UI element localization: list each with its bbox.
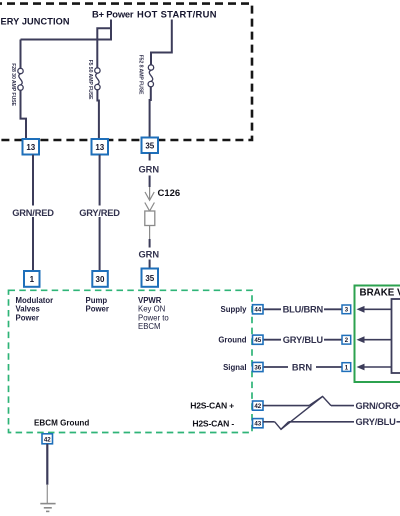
label EBCM Ground	[34, 419, 89, 428]
svg-text:BLU/BRN: BLU/BRN	[283, 305, 324, 315]
wire connector 13 to pin 30	[99, 155, 101, 271]
brake valve pin 2	[342, 335, 351, 344]
wire fuse F52 to connector 35	[150, 87, 151, 138]
pin 45	[253, 335, 264, 344]
svg-text:GRY/BLU: GRY/BLU	[356, 417, 397, 427]
arrow into pin 1	[357, 364, 392, 371]
connector 13 (left)	[23, 139, 40, 155]
svg-text:Signal: Signal	[223, 363, 246, 372]
label BLU/BRN	[281, 304, 324, 316]
svg-text:42: 42	[44, 436, 51, 443]
svg-text:1: 1	[30, 275, 35, 284]
brake valve pin 1	[342, 363, 351, 372]
connector C126 arrow	[145, 187, 154, 200]
connector 13 (middle)	[92, 139, 109, 155]
connector 35 (top)	[142, 138, 159, 154]
svg-text:42: 42	[254, 403, 261, 410]
svg-text:43: 43	[254, 421, 261, 428]
label C126	[158, 188, 181, 199]
svg-text:GRY/BLU: GRY/BLU	[283, 335, 324, 345]
brake valve inner block	[392, 299, 400, 373]
label Supply	[221, 305, 248, 314]
svg-text:GRY/RED: GRY/RED	[79, 208, 120, 218]
label VPWR Key ON Power to EBCM	[138, 296, 169, 331]
connector C126 fork	[145, 203, 155, 212]
brake valve pin 3	[342, 305, 351, 314]
fuse F5 50 AMP FUSE	[95, 68, 100, 90]
pin 35 VPWR	[142, 269, 159, 287]
svg-text:H2S-CAN -: H2S-CAN -	[192, 419, 234, 429]
svg-text:Power to: Power to	[138, 313, 169, 322]
wire Ground row	[263, 339, 342, 341]
label Signal	[223, 363, 246, 372]
svg-text:B+ Power: B+ Power	[92, 9, 134, 20]
svg-text:13: 13	[95, 143, 104, 152]
pin 43 (H2S-CAN -)	[253, 419, 264, 428]
svg-text:36: 36	[254, 364, 261, 371]
pin 30 Pump Power	[92, 271, 108, 287]
wire GRN to pin 35	[149, 260, 151, 270]
brake valve box	[355, 286, 400, 383]
ground	[40, 504, 55, 512]
label H2S-CAN +	[190, 401, 234, 411]
twisted pair dip	[275, 422, 289, 430]
svg-text:Pump: Pump	[86, 296, 108, 305]
wire H2S-CAN + row	[263, 405, 309, 407]
battery junction box (dashed)	[0, 4, 252, 140]
label GRN/RED	[12, 206, 54, 219]
pin 42 (H2S-CAN +)	[253, 401, 264, 410]
label GRY/RED	[79, 206, 121, 219]
svg-text:BRAKE VALVE: BRAKE VALVE	[360, 288, 400, 299]
fuse F52 8 AMP FUSE	[148, 65, 154, 87]
label GRN (upper)	[138, 164, 159, 174]
arrow into pin 3	[357, 306, 392, 313]
svg-text:ERY JUNCTION: ERY JUNCTION	[1, 17, 70, 27]
label Pump Power	[86, 296, 109, 314]
svg-text:30: 30	[96, 275, 105, 284]
label F28 30 AMP FUSE	[10, 63, 16, 106]
label B+ Power	[92, 9, 134, 20]
svg-text:GRN: GRN	[138, 164, 159, 174]
label BATTERY JUNCTION	[1, 17, 70, 27]
wire connector 13 to pin 1	[32, 155, 34, 271]
wire fuse F28 to connector 13	[21, 90, 27, 140]
svg-text:Power: Power	[16, 313, 39, 322]
svg-text:13: 13	[26, 143, 35, 152]
svg-text:45: 45	[254, 337, 261, 344]
svg-text:Key ON: Key ON	[138, 305, 165, 314]
label F52 8 AMP FUSE	[138, 55, 144, 95]
svg-text:HOT START/RUN: HOT START/RUN	[137, 9, 217, 20]
svg-text:VPWR: VPWR	[138, 296, 162, 305]
svg-text:BRN: BRN	[292, 362, 312, 372]
svg-text:Valves: Valves	[16, 305, 41, 314]
svg-text:H2S-CAN +: H2S-CAN +	[190, 401, 234, 411]
arrow into pin 2	[357, 336, 392, 343]
label HOT START/RUN	[137, 9, 217, 20]
twisted pair peak	[309, 396, 331, 405]
label GRN (lower)	[138, 249, 159, 259]
svg-text:C126: C126	[158, 188, 181, 199]
svg-text:Ground: Ground	[218, 336, 246, 345]
EBCM module box (green dashed)	[9, 290, 253, 432]
label F5 50 AMP FUSE	[87, 60, 93, 100]
wire below GRN label	[149, 176, 151, 188]
wire ground drop	[46, 444, 48, 503]
connector C126 body	[145, 211, 155, 226]
svg-text:Modulator: Modulator	[16, 296, 54, 305]
wire Supply row	[263, 308, 342, 310]
svg-text:44: 44	[254, 307, 261, 314]
wire after dip	[289, 421, 354, 423]
svg-text:35: 35	[145, 274, 154, 283]
label BRN	[288, 361, 316, 373]
svg-text:GRN/RED: GRN/RED	[12, 208, 54, 218]
pin 36	[253, 362, 264, 371]
svg-text:Supply: Supply	[221, 305, 248, 314]
svg-text:GRN: GRN	[138, 249, 159, 259]
label GRN/ORG	[356, 401, 399, 411]
label H2S-CAN -	[192, 419, 234, 429]
label GRY/BLU (valve)	[281, 334, 324, 346]
wire B+ power drop	[110, 20, 112, 41]
svg-text:EBCM: EBCM	[138, 322, 161, 331]
wire branch to fuse F5	[97, 28, 112, 68]
svg-text:GRN/ORG: GRN/ORG	[356, 401, 399, 411]
svg-text:35: 35	[145, 141, 154, 150]
wire fuse F5 to connector 13	[97, 90, 99, 140]
svg-text:F5 50 AMP FUSE: F5 50 AMP FUSE	[87, 60, 93, 100]
wire main horizontal bus	[21, 39, 113, 41]
label GRY/BLU (CAN)	[356, 417, 397, 427]
fuse F28 30 AMP FUSE	[18, 68, 23, 90]
wire drop to fuse F28	[20, 40, 22, 69]
wire Signal row	[263, 366, 342, 368]
svg-text:F52 8 AMP FUSE: F52 8 AMP FUSE	[138, 55, 144, 95]
wire GRN/ORG to edge	[396, 405, 400, 407]
svg-text:F28 30 AMP FUSE: F28 30 AMP FUSE	[10, 63, 16, 106]
wire below C126	[149, 226, 151, 248]
wire after peak	[331, 405, 354, 407]
twisted pair crossover diagonal	[281, 396, 323, 429]
wire H2S-CAN - row	[263, 421, 275, 423]
pin 42 EBCM Ground	[42, 434, 53, 444]
pin 1 Modulator Valves Power	[24, 271, 40, 287]
label Ground	[218, 336, 246, 345]
wire GRY/BLU to edge	[397, 421, 400, 423]
svg-text:Power: Power	[86, 305, 109, 314]
pin 44	[253, 305, 264, 314]
wire HOT START/RUN drop	[151, 20, 172, 65]
svg-text:EBCM Ground: EBCM Ground	[34, 419, 89, 428]
label Modulator Valves Power	[16, 296, 54, 322]
wire connector 35 down	[149, 153, 151, 160]
